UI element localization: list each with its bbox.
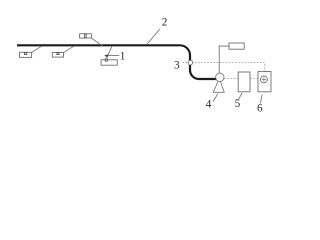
sensor box B bbox=[52, 53, 63, 58]
leader line for label 4 bbox=[213, 94, 218, 102]
wire: main cable 2 (thick line with two rounded corners) bbox=[17, 45, 216, 79]
leader line for label 5 bbox=[239, 93, 243, 99]
node 3: connector circle on cable bbox=[188, 60, 193, 65]
component 4: coupler (circle) bbox=[216, 73, 224, 81]
component 4: coupler (triangle stand) bbox=[213, 79, 224, 93]
svg-text:4: 4 bbox=[206, 99, 212, 111]
sensor box D (labelled 1) bbox=[101, 59, 117, 65]
svg-text:3: 3 bbox=[174, 59, 180, 71]
wire: L-shaped line from top box to coupler 4 bbox=[219, 46, 229, 73]
svg-text:6: 6 bbox=[257, 102, 263, 114]
dashed link: coupler 4 to box 5 bbox=[224, 78, 238, 80]
sensor box A bbox=[20, 52, 32, 57]
top-right box bbox=[229, 43, 244, 49]
box 5 bbox=[238, 72, 250, 92]
leader line for label 1 with arrowhead bbox=[104, 54, 119, 57]
leader line for label 6 bbox=[260, 95, 262, 104]
svg-text:2: 2 bbox=[162, 16, 168, 28]
sensor box C (above cable) bbox=[80, 34, 92, 38]
box 6 with meter circle bbox=[258, 72, 271, 92]
dashed link: box 5 to box 6 bbox=[250, 78, 258, 80]
wire: drop line from box A to cable bbox=[31, 46, 41, 52]
leader line for label 2 bbox=[147, 29, 160, 44]
svg-text:1: 1 bbox=[120, 51, 126, 63]
dashed optical path from connector 3 to instruments bbox=[183, 63, 265, 72]
wire: drop line from box C to cable bbox=[91, 38, 103, 46]
wire: drop line from box B to cable bbox=[63, 46, 73, 53]
wire: drop line from cable to box D bbox=[106, 47, 112, 59]
svg-text:5: 5 bbox=[235, 98, 241, 110]
